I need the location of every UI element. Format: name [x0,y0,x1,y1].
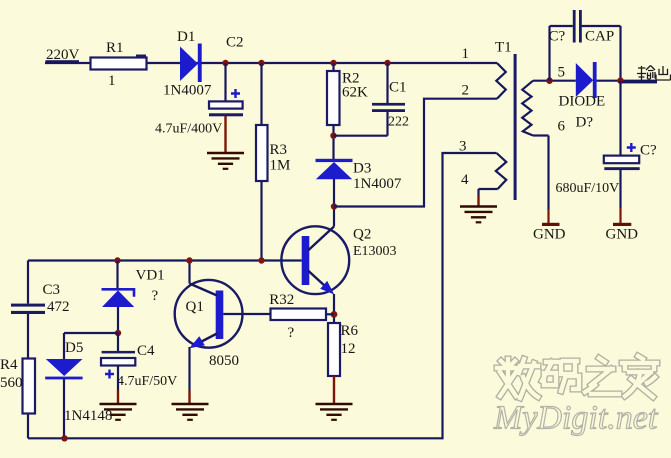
junction mid rail VD1 [114,257,120,263]
svg-text:CAP: CAP [585,29,614,45]
svg-text:C4: C4 [137,343,155,359]
resistor R4 560 [0,357,35,413]
svg-text:D5: D5 [65,340,83,356]
svg-text:R32: R32 [269,292,294,308]
wire pin4 [479,189,498,207]
svg-text:560: 560 [0,375,23,391]
svg-text:Q2: Q2 [353,227,371,243]
junction pin5 [546,77,553,84]
diode D1 1N4007 [163,29,212,99]
power pad GND right [606,223,639,243]
capacitor C3 472 [11,282,70,315]
wire VD1 branch [116,261,118,289]
svg-text:4.7uF/400V: 4.7uF/400V [155,121,222,136]
svg-text:Q1: Q1 [186,299,204,315]
wire left rail [27,261,29,439]
svg-text:T1: T1 [495,40,512,56]
junction D5 bottom rail [61,435,67,441]
wire C4 branch [117,333,119,351]
svg-text:R4: R4 [0,357,18,373]
svg-text:R3: R3 [270,142,288,158]
watermark MyDigit.net [493,400,659,437]
resistor R6 12 [328,323,359,376]
wire R3 branch top [260,63,262,125]
svg-text:8050: 8050 [209,353,239,369]
junction D3/wire2 [331,203,337,209]
svg-text:6: 6 [558,118,566,134]
svg-text:4.7uF/50V: 4.7uF/50V [117,374,177,389]
junction on rail at C1 [384,60,390,66]
svg-text:GND: GND [606,227,639,243]
junction on rail at C2 [222,60,228,66]
junction VD1/D5/C4 [115,330,121,336]
svg-text:D?: D? [576,114,594,130]
node 220V [46,47,80,63]
wire R6 to ground [333,376,335,404]
svg-text:MyDigit.net: MyDigit.net [493,400,659,437]
ground under R6 [316,404,353,420]
wire diode to output [597,80,657,82]
wire bottom rail [28,153,497,438]
svg-text:5: 5 [558,64,566,80]
node C2 [226,35,244,51]
svg-text:?: ? [288,325,295,341]
wire R32 left to Q1 base [223,313,270,315]
resistor R2 62K [327,71,368,126]
svg-text:C?: C? [549,29,566,45]
svg-text:472: 472 [47,299,70,315]
transistor Q1 8050 [175,280,243,369]
junction mid rail Q1 collector [186,257,192,263]
power pad GND left [533,223,566,243]
wire 220V input rail [45,62,497,64]
diode D? DIODE [559,62,606,130]
diode VD1 [102,268,165,307]
svg-text:220V: 220V [46,47,80,63]
wire C4 to ground [117,366,119,405]
svg-text:C1: C1 [389,80,407,96]
resistor R32 [269,292,326,341]
svg-text:GND: GND [533,227,566,243]
svg-text:R6: R6 [341,323,359,339]
svg-text:R1: R1 [106,40,124,56]
junction mid rail R3 [258,257,264,263]
wire D3 to Q2 collector [333,179,335,227]
svg-text:1M: 1M [270,158,291,174]
wire pin2 net [334,99,497,207]
svg-text:1: 1 [462,46,470,62]
svg-text:?: ? [152,288,159,304]
wire C2 to ground [224,116,226,153]
svg-text:3: 3 [459,138,467,154]
junction emitter/R32/R6 [331,311,338,318]
wire underline under output label [622,81,657,83]
svg-text:1N4007: 1N4007 [353,176,402,192]
wire secondary top to diode [533,80,576,82]
watermark 数码之家 [497,356,657,398]
diode D5 1N4148 [45,340,112,424]
capacitor C? CAP [549,10,615,45]
wire R32 right [326,313,334,315]
node 输出 output label [637,66,671,81]
svg-text:D1: D1 [177,29,195,45]
transformer T1 [459,40,566,200]
capacitor C? 680uF/10V [556,81,658,196]
wire R2 bottom to D3 [332,125,334,159]
resistor R3 1M [256,125,290,181]
capacitor C2 4.7uF/400V [155,89,243,136]
ground under C4 [100,404,137,420]
svg-text:222: 222 [388,115,409,130]
wire Q1 collector up [188,261,190,284]
ground under Q1 [172,404,209,420]
wire D5 to bottom rail [63,379,65,438]
core [514,54,517,200]
junction on rail at R2 [330,60,336,66]
wire output cap to GND [619,170,621,223]
winding 3-4 [496,153,507,189]
svg-text:D3: D3 [353,161,371,177]
wire R3 bottom to mid rail [260,181,262,261]
diode D3 1N4007 [316,159,402,192]
svg-text:2: 2 [462,82,470,98]
wire C2 branch [224,63,226,102]
svg-text:12: 12 [341,341,356,357]
wire Q2 emitter down [333,294,335,323]
wire mid rail [28,259,302,261]
junction R2/C1 [330,133,336,139]
svg-text:1N4007: 1N4007 [163,83,212,99]
secondary winding 5-6 [522,81,533,136]
svg-text:DIODE: DIODE [559,93,606,109]
wire secondary bottom to GND [533,136,549,224]
wire Q1 emitter down [188,347,190,404]
capacitor C4 4.7uF/50V [101,343,177,389]
ground under pin4 [460,207,497,223]
ground under C2 [207,153,244,169]
wire junction to D5 [64,333,118,359]
svg-text:4: 4 [461,172,469,188]
wire CAP snubber loop [550,26,621,81]
svg-text:680uF/10V: 680uF/10V [556,181,620,196]
junction output cap [617,77,624,84]
primary winding 1-2 [496,63,506,99]
svg-text:C?: C? [640,142,657,158]
svg-text:C2: C2 [226,35,244,51]
svg-text:C3: C3 [43,282,61,298]
capacitor C1 222 [372,80,409,130]
svg-text:62K: 62K [342,85,368,101]
wire C1 branch [334,63,388,136]
wire R2 branch top [332,63,334,71]
wire VD1 to junction [117,307,119,333]
svg-text:E13003: E13003 [353,244,397,259]
svg-text:VD1: VD1 [136,268,165,284]
svg-text:1: 1 [108,73,116,89]
resistor R1 [91,40,147,89]
junction on rail at R3 [258,60,264,66]
transistor Q2 E13003 [281,226,396,294]
